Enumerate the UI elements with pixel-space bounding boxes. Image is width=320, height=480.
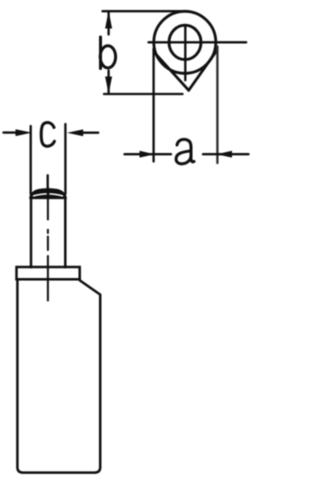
body outline with chamfered top-right corner	[17, 279, 100, 472]
pin shaft left edge	[30, 198, 33, 267]
dimension a: label "a"	[177, 139, 194, 161]
dimension a: right dimension line	[203, 153, 249, 155]
dimension b: up arrowhead	[105, 11, 112, 29]
dimension a: left arrowhead	[140, 151, 155, 158]
dimension c: label "c"	[41, 123, 54, 147]
dimension c: left arrowhead	[16, 129, 33, 136]
dimension c: left dimension line	[4, 131, 18, 133]
dimension b: bottom extension line	[104, 93, 183, 95]
vertical centerline of eyelet	[184, 26, 186, 80]
dimension c: right extension line	[64, 124, 66, 194]
dimension b: label "b"	[99, 37, 102, 69]
pin shaft right edge	[64, 198, 67, 267]
dimension b: top extension line	[103, 10, 186, 12]
dimension c: right dimension line	[83, 132, 99, 134]
pin centerline stub above dome	[47, 175, 49, 189]
dimension a: left dimension line	[125, 153, 172, 155]
cone/taper left line of teardrop	[156, 54, 189, 90]
dimension a: left extension line	[152, 49, 154, 162]
dimension c: left extension line	[30, 126, 32, 194]
flange / collar	[17, 267, 80, 279]
horizontal centerline of eyelet	[149, 41, 247, 43]
dimension b: down arrowhead	[105, 77, 112, 95]
pin centerline (dash-dot)	[47, 199, 49, 301]
pin domed head (filled)	[30, 189, 66, 199]
dimension c: right arrowhead	[67, 129, 83, 136]
dimension b: dimension line (broken for label)	[107, 11, 109, 93]
pin domed head highlight	[34, 194, 63, 196]
dimension a: right arrowhead	[217, 151, 232, 158]
cone/taper right line of teardrop	[189, 51, 217, 91]
dimension a: right extension line	[216, 47, 218, 164]
pin centerline crossing dome	[47, 189, 50, 199]
eyelet end view: inner circle (hole)	[169, 25, 201, 59]
eyelet end view: outer circle	[154, 11, 216, 73]
